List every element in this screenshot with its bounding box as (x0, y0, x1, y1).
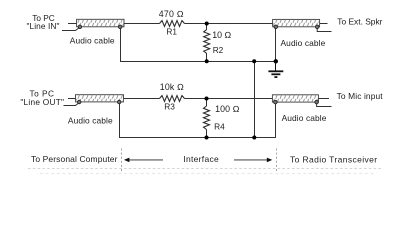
node junction dot R2 bottom (205, 59, 209, 63)
audio cable J3 (to PC Line OUT) (76, 95, 124, 104)
label To PC Line IN (26, 13, 59, 31)
svg-text:Audio cable: Audio cable (282, 113, 327, 123)
svg-text:Interface: Interface (183, 154, 219, 164)
wire shield lead left of J3 (64, 103, 80, 106)
wire top signal rail right (R1 to Ext Spkr stub) (185, 23, 328, 25)
faint dotted rule bottom second (40, 173, 375, 175)
wire bottom signal rail right (R3 to Mic stub) (185, 98, 330, 100)
node junction dot R2 top (205, 22, 209, 26)
svg-text:"Line OUT": "Line OUT" (20, 97, 64, 107)
resistor R1 (160, 21, 185, 27)
boundary dashed line left (interface / PC) (121, 149, 123, 172)
wire bottom ground rail (119, 137, 276, 139)
wire shield drop from J3 to bottom ground rail (119, 102, 121, 138)
svg-text:To Radio Transceiver: To Radio Transceiver (290, 154, 377, 164)
arrow pointing right to radio (234, 158, 272, 163)
resistor R4 (204, 99, 210, 138)
node junction dot R4 top (205, 97, 209, 101)
wire shield stub right of J2 (317, 27, 331, 32)
wire shield drop from J4 to bottom ground rail (275, 102, 277, 137)
svg-text:R4: R4 (214, 121, 225, 131)
svg-text:100 Ω: 100 Ω (215, 104, 240, 114)
svg-text:10k Ω: 10k Ω (160, 82, 184, 92)
audio cable J4 (to Mic input) (272, 95, 318, 104)
svg-text:"Line IN": "Line IN" (26, 21, 59, 31)
label To PC Line OUT (20, 89, 64, 108)
wire shield drop from J1 to ground rail (120, 27, 122, 62)
wire top ground rail (120, 61, 276, 63)
svg-text:470 Ω: 470 Ω (159, 9, 184, 19)
audio cable J1 (to PC Line IN) (77, 19, 124, 28)
node junction dot at ground symbol (274, 59, 278, 63)
svg-text:To Ext. Spkr: To Ext. Spkr (337, 16, 382, 26)
wire bottom signal rail left (PC Line OUT lead to R3) (68, 98, 160, 100)
svg-text:To Mic input: To Mic input (337, 91, 384, 101)
faint dotted rule bottom (28, 168, 382, 170)
resistor R2 (204, 24, 210, 62)
boundary dashed line right (interface / radio) (276, 149, 278, 172)
node junction dot R4 bottom (205, 136, 209, 140)
svg-text:R2: R2 (213, 45, 224, 55)
svg-text:Audio cable: Audio cable (281, 38, 326, 48)
svg-text:To Personal Computer: To Personal Computer (31, 154, 118, 164)
resistor R3 (160, 96, 185, 102)
ground (268, 62, 283, 78)
svg-text:R1: R1 (166, 27, 177, 37)
svg-text:R3: R3 (164, 101, 175, 111)
wire top signal rail left (PC Line IN lead to R1) (68, 23, 160, 25)
wire shield drop from J2 to ground rail (275, 27, 277, 62)
arrow pointing left to PC (124, 158, 163, 163)
node junction dot ground link bottom (252, 136, 256, 140)
svg-text:10 Ω: 10 Ω (212, 30, 231, 40)
wire shield stub right of J4 (317, 102, 332, 106)
wire shield lead left of J1 (62, 27, 80, 30)
node junction dot ground link top (252, 59, 256, 63)
svg-text:Audio cable: Audio cable (68, 116, 113, 126)
wire ground link between circuits (254, 62, 256, 138)
svg-text:Audio cable: Audio cable (70, 35, 115, 45)
audio cable J2 (to Ext Spkr) (273, 19, 320, 28)
